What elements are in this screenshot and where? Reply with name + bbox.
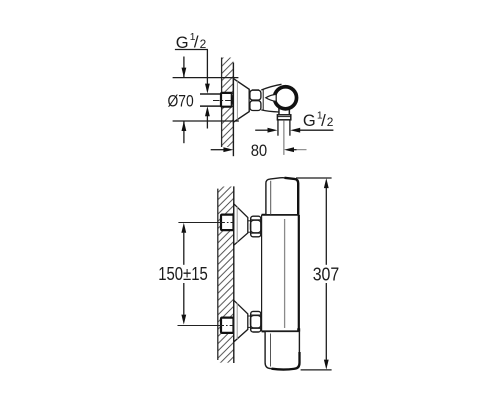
dimension G 1/2 (wall union): leader underline [175, 49, 208, 51]
square union nut bottom (bottom view) [221, 318, 234, 333]
svg-text:/: / [194, 33, 199, 52]
svg-text:G: G [303, 112, 316, 130]
centerline bottom supply (bottom view), also ext. line of 150&#xb1;15 [178, 325, 237, 327]
outlet neck (top view) [279, 105, 289, 115]
wall face line (top view), also extension line for 80 dim [232, 63, 234, 157]
temperature pointer beak (top view) [266, 94, 276, 101]
svg-text:307: 307 [313, 264, 340, 285]
body bottom edge (top view) [261, 110, 279, 112]
thermostat handle circle (top view) [274, 87, 296, 109]
dimension 80: right arrow at hose centerline [284, 147, 307, 152]
square union nut top (bottom view) [221, 215, 234, 231]
svg-text:Ø70: Ø70 [168, 92, 194, 110]
centerline through union (top view) [213, 100, 237, 102]
dimension G 1/2 (wall union): leader vertical + down arrow [205, 50, 210, 94]
supply pipe (top view) top edge [200, 93, 222, 95]
dimension G 1/2 (hose): left arrow [255, 128, 277, 133]
supply pipe (top view) bottom edge [200, 105, 222, 107]
svg-text:80: 80 [251, 142, 268, 160]
union nut on wall (top view) [221, 93, 232, 107]
centerline top supply (bottom view), also ext. line of 150&#xb1;15 [178, 222, 236, 224]
escutcheon cone (top view) [233, 79, 249, 123]
dimension 150±15: line and arrows [181, 223, 186, 325]
label G 1/2 (hose) [303, 111, 334, 131]
dimension 307: extension lines [296, 178, 332, 370]
hose centerline [283, 120, 285, 155]
hex nut (top view) [250, 89, 261, 111]
mixer body (bottom view) [262, 215, 299, 332]
dimension 307: line and arrows [324, 178, 329, 370]
union nipple tabs (top view) [232, 93, 235, 106]
wall back line (top view) [221, 58, 223, 148]
svg-text:2: 2 [327, 115, 334, 129]
hex nut bottom (bottom view) [250, 311, 261, 332]
outlet collar nut (top view) [277, 115, 290, 120]
connector top cone to nut [248, 221, 251, 232]
dimension G 1/2 (hose): right arrow with tail [290, 128, 333, 133]
wall back line (bottom view) [217, 189, 219, 360]
dimension 80: left arrow at wall [211, 147, 234, 152]
body top edge (top view) [261, 84, 281, 90]
escutcheon cone top (bottom view) [234, 204, 248, 245]
wall hatching (bottom view) [218, 187, 234, 363]
wall face line (bottom view) [233, 186, 235, 363]
connector bottom cone to nut [248, 316, 251, 327]
dimension Ø70: top arrow [182, 57, 187, 78]
svg-text:/: / [321, 111, 326, 130]
dimension G 1/2 (wall union): up arrow below pipe [205, 106, 210, 128]
svg-text:150±15: 150±15 [158, 263, 208, 284]
shower hose stub (top view) [278, 120, 290, 136]
body joint line (top view) [262, 90, 264, 111]
escutcheon cone bottom (bottom view) [234, 300, 248, 342]
body outlet stub mark (bottom right) [297, 328, 300, 331]
wall hatching (top view) [222, 58, 234, 148]
dimension G 1/2 (wall union): label text [176, 32, 207, 52]
volume handle (bottom view, bottom) [265, 331, 299, 369]
svg-text:2: 2 [200, 37, 207, 51]
dimension Ø70: bottom extension line [173, 120, 239, 122]
temperature handle (bottom view, top) [266, 178, 298, 215]
dimension Ø70: bottom arrow [182, 121, 187, 143]
dimension Ø70: top extension line [173, 77, 239, 79]
hex nut top (bottom view) [250, 216, 261, 237]
